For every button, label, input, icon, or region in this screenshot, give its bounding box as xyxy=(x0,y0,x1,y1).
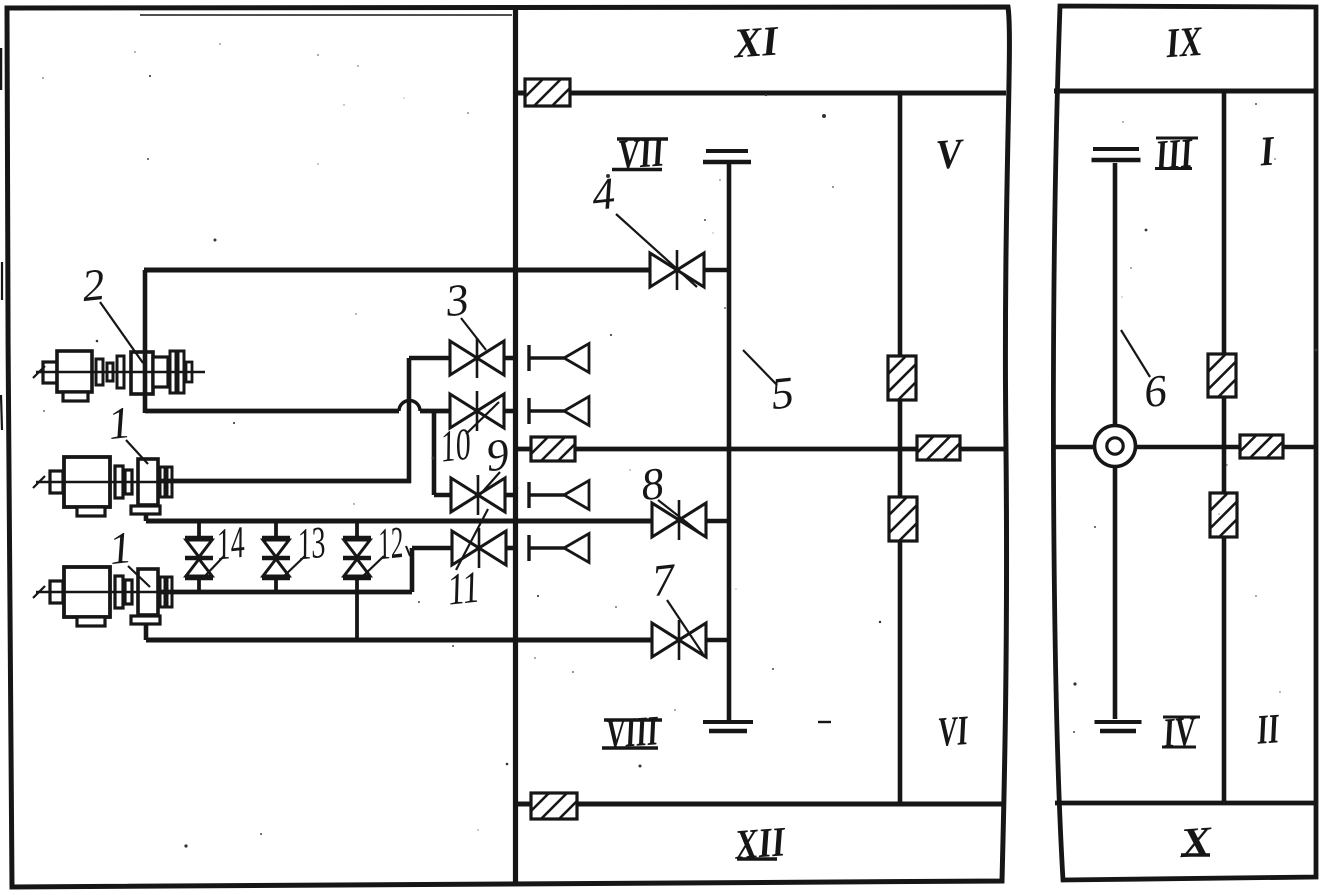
svg-text:11: 11 xyxy=(445,562,482,615)
svg-text:13: 13 xyxy=(295,517,328,570)
svg-text:VII: VII xyxy=(617,129,667,178)
svg-text:VI: VI xyxy=(937,708,971,756)
svg-text:X: X xyxy=(1177,819,1214,867)
svg-text:XII: XII xyxy=(732,819,788,869)
svg-text:VIII: VIII xyxy=(605,708,661,758)
svg-text:12: 12 xyxy=(375,517,405,569)
svg-text:XI: XI xyxy=(731,18,782,67)
svg-text:14: 14 xyxy=(214,517,247,570)
svg-text:10: 10 xyxy=(438,419,473,472)
svg-text:IX: IX xyxy=(1164,19,1205,68)
svg-text:II: II xyxy=(1255,706,1282,754)
